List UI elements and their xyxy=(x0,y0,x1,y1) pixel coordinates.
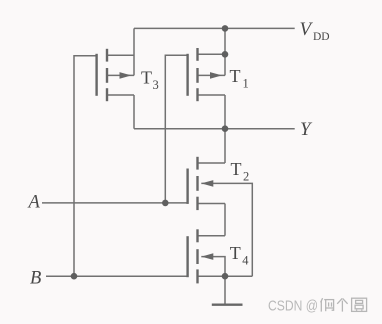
glyph 个 xyxy=(337,298,342,303)
label T4 xyxy=(230,243,249,268)
svg-text:V: V xyxy=(300,19,314,40)
wire T1 bottom stub xyxy=(198,94,226,96)
wire T4 source rail xyxy=(198,275,253,277)
ground xyxy=(212,304,243,306)
svg-text:T: T xyxy=(230,66,241,86)
glyph 圆 xyxy=(352,298,367,311)
transistor T3 body arrow (points right) xyxy=(120,72,132,79)
wire T2 top stub xyxy=(198,162,226,164)
wire B input line xyxy=(46,275,188,277)
label T2 xyxy=(231,159,250,184)
wire T1 body stub xyxy=(198,74,226,76)
transistor T1 xyxy=(188,48,198,101)
wire T3 source down to Y xyxy=(133,95,135,129)
svg-text:4: 4 xyxy=(242,253,249,267)
watermark CSDN @俩个圆 xyxy=(268,298,367,315)
transistor T4 body arrow (points left) xyxy=(201,253,213,260)
node junction dot T1 drain xyxy=(222,51,229,58)
svg-text:A: A xyxy=(27,192,41,212)
wire T4 top stub xyxy=(198,235,226,237)
label VDD xyxy=(300,19,330,43)
svg-text:CSDN @: CSDN @ xyxy=(268,298,318,315)
svg-text:DD: DD xyxy=(313,31,330,43)
transistor T4 xyxy=(188,229,198,283)
wire VDD rail xyxy=(134,27,295,29)
wire T3 drain/body vertical to VDD (x=134) xyxy=(133,28,135,75)
svg-text:2: 2 xyxy=(243,170,249,184)
wire A input line xyxy=(42,202,188,204)
svg-text:1: 1 xyxy=(243,77,249,91)
svg-text:T: T xyxy=(231,159,242,179)
transistor T1 body arrow (points right) xyxy=(210,72,222,79)
wire T3 bottom stub xyxy=(107,94,134,96)
wire T3 top stub xyxy=(107,54,134,56)
glyph 俩 xyxy=(321,298,323,302)
transistor T2 body arrow (points left) xyxy=(201,180,213,187)
wire ground stem xyxy=(224,276,226,304)
wire T1 top stub xyxy=(198,53,226,55)
wire Y output line xyxy=(134,128,295,130)
label T1 xyxy=(230,66,249,91)
wire T1 gate lead xyxy=(165,55,187,203)
node junction dot on VDD rail xyxy=(222,25,229,32)
label T3 xyxy=(141,68,159,93)
svg-text:Y: Y xyxy=(300,119,313,140)
transistor T3 xyxy=(97,49,107,101)
svg-text:B: B xyxy=(30,268,41,288)
node A junction dot xyxy=(162,200,169,207)
svg-text:T: T xyxy=(141,68,152,88)
wire VDD down through T1 drain to body tip (x=225) xyxy=(224,28,226,75)
node Y junction dot xyxy=(222,125,229,132)
svg-text:3: 3 xyxy=(153,78,159,92)
wire T2 body to ground rail (x=252.3) xyxy=(201,183,252,276)
wire T3 gate lead xyxy=(74,56,97,276)
node ground junction dot xyxy=(222,273,229,280)
node B junction dot xyxy=(71,273,78,280)
wire T1 source to Y to T2 drain (x=225) xyxy=(224,95,226,163)
wire T3 body stub xyxy=(107,74,134,76)
wire T2 source to T4 drain (x=225) xyxy=(224,204,226,236)
wire T2 bottom stub xyxy=(198,203,226,205)
wire T4 body down to source rail xyxy=(201,257,225,277)
svg-text:T: T xyxy=(230,243,241,263)
transistor T2 xyxy=(188,157,198,210)
